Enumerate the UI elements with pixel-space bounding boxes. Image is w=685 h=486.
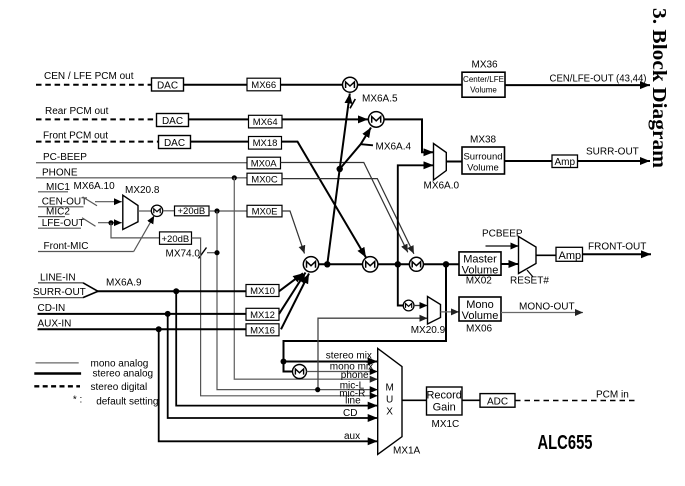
wire DAC to MX66 (184, 84, 248, 86)
wire mic2 tap to +20dB front (111, 223, 160, 238)
svg-text:Center/LFE: Center/LFE (463, 75, 504, 84)
svg-text:CEN / LFE PCM out: CEN / LFE PCM out (44, 71, 134, 82)
junction aux tap (156, 326, 162, 332)
mux MX20.8 trapezoid (123, 195, 138, 229)
gain box Record Gain (426, 387, 462, 415)
svg-text:MX0C: MX0C (251, 174, 278, 185)
svg-text:DAC: DAC (164, 138, 185, 149)
wire Surround Volume to Amp (505, 160, 553, 162)
mixer M (center/LFE) circle (343, 77, 358, 92)
wire mixer3 to Master Volume (423, 263, 459, 265)
wire MX16 diagonal to mixer1 (281, 274, 309, 330)
wire MIC1/CEN-OUT merge slant (83, 197, 97, 206)
mixer row: front mixer1 circle (303, 257, 318, 272)
volume box Center/LFE Volume (462, 72, 505, 97)
wire MX0C diagonal to mixer3 (282, 179, 414, 254)
wire LINE-IN merge slants (83, 283, 98, 298)
svg-text:AUX-IN: AUX-IN (38, 319, 72, 330)
svg-text:Amp: Amp (559, 250, 582, 262)
junction front mix tap B (395, 261, 401, 267)
register box MX66 (247, 78, 281, 91)
wire front mix tap B up to MX6A.0 mux (398, 165, 434, 264)
node LINE-IN label underlined (38, 272, 83, 283)
mixer row: front mixer3 circle (409, 257, 423, 271)
wire MIC mux to mic mixer (138, 210, 151, 212)
wire phone down to record MUX (234, 178, 377, 379)
wire MX6A.4 to MX6A.0 mux (384, 119, 434, 152)
svg-text:LFE-OUT: LFE-OUT (42, 218, 85, 229)
wire +20dB front down to record MUX (mic-R) (192, 238, 378, 396)
svg-text:MX6A.10: MX6A.10 (74, 181, 116, 192)
wire MX10 diagonal to mixer1 (279, 273, 303, 291)
svg-text:Amp: Amp (555, 157, 576, 168)
svg-text:SURR-OUT: SURR-OUT (586, 147, 639, 158)
svg-text:CD-IN: CD-IN (38, 303, 66, 314)
svg-text:PC-BEEP: PC-BEEP (43, 152, 87, 163)
DAC U3 (front) (159, 136, 191, 150)
svg-text:stereo mix: stereo mix (326, 351, 372, 362)
mux front (beep/master) trapezoid (519, 237, 537, 274)
svg-text:LINE-IN: LINE-IN (40, 272, 76, 283)
wire front mix branch to MX6A.4 (340, 128, 371, 170)
svg-text:CD: CD (343, 408, 357, 419)
register box MX0E (247, 205, 282, 217)
svg-text:MIC1: MIC1 (46, 182, 70, 193)
wire aux down to record MUX (159, 329, 378, 441)
svg-text:PHONE: PHONE (42, 167, 78, 178)
wire PC-BEEP to MX0A (36, 162, 247, 164)
svg-text:MX6A.5: MX6A.5 (362, 94, 398, 105)
wire mono mix to record MUX (307, 371, 378, 373)
wire CEN/LFE-OUT (505, 84, 650, 86)
label M U X inside (386, 383, 394, 418)
svg-text:MX0A: MX0A (251, 158, 278, 169)
label MX6A.4 with leader (361, 142, 412, 153)
wire line down to record MUX (176, 291, 378, 405)
svg-text:MX6A.9: MX6A.9 (106, 277, 142, 288)
wire front mix up to MX6A.5 with slash (327, 94, 355, 265)
svg-text:CEN/LFE-OUT (43,44): CEN/LFE-OUT (43,44) (550, 74, 647, 85)
wire stereo mix to record MUX (284, 361, 378, 363)
label RESET# with leader (510, 270, 549, 287)
wire cd down to record MUX (168, 314, 378, 418)
svg-text:ALC655: ALC655 (538, 432, 593, 454)
svg-text:MX38: MX38 (470, 135, 497, 146)
mixer M (rear) circle MX6A.4 (368, 112, 384, 128)
wire mixer2 to mixer3 (378, 263, 410, 265)
wire arrow into MIC mux input1 (95, 201, 122, 203)
svg-text:MX16: MX16 (250, 325, 275, 336)
svg-text:Gain: Gain (433, 402, 456, 414)
svg-text:U: U (386, 395, 393, 406)
junction phone tap (232, 175, 237, 180)
register box MX18 (249, 137, 282, 150)
junction cd tap (165, 311, 171, 317)
wire MX6A.0 to Surround Volume (446, 161, 462, 163)
junction MX74.0 dot (214, 250, 219, 255)
junction mic tap (214, 208, 219, 213)
DAC U2 (rear) (157, 114, 189, 128)
mixer M (mono out) circle (403, 300, 414, 311)
wire mic down to record MUX (mic-L) (217, 211, 378, 390)
wire PHONE to MX0C (36, 177, 247, 179)
wire mixer to Center/LFE Volume (358, 84, 463, 86)
svg-text:* :: * : (73, 395, 82, 406)
register box MX0A (247, 157, 281, 169)
svg-text:MONO-OUT: MONO-OUT (519, 302, 575, 313)
svg-text:MX02: MX02 (466, 276, 493, 287)
wire front mux to Amp (536, 254, 556, 256)
mixer row: front mixer2 circle (363, 257, 378, 272)
legend stereo analog (34, 369, 153, 380)
junction stereo mix tap (281, 359, 287, 365)
wire DAC to MX64 (189, 118, 249, 120)
svg-text:MX10: MX10 (250, 286, 275, 297)
wire arrow into MIC mux input2 (98, 222, 122, 224)
wire Record Gain to ADC (462, 399, 480, 401)
junction master out tap (443, 261, 449, 267)
svg-text:Rear PCM out: Rear PCM out (45, 106, 109, 117)
wire MX20.9 to Mono Volume (441, 311, 460, 313)
node CEN-OUT label underlined (38, 197, 87, 208)
wire FRONT-OUT (583, 253, 652, 255)
wire MX18 diagonal to front mixer2 (282, 142, 367, 258)
legend default setting (73, 395, 159, 408)
svg-text:M: M (386, 383, 394, 394)
wire +20dB to MX0E (209, 210, 247, 212)
register box MX12 (246, 308, 279, 321)
svg-text:MX6A.0: MX6A.0 (424, 181, 460, 192)
svg-text:DAC: DAC (162, 116, 183, 127)
svg-text:MX64: MX64 (253, 117, 278, 128)
gain box +20dB (mic) (175, 206, 210, 217)
svg-text:+20dB: +20dB (178, 206, 206, 217)
svg-text:+20dB: +20dB (162, 234, 190, 245)
svg-text:X: X (386, 407, 393, 418)
mixer M (mic) circle (151, 205, 162, 216)
svg-text:MX74.0: MX74.0 (166, 249, 201, 260)
wire MX0A diagonal to mixer3 (281, 163, 408, 253)
wire MONO-OUT (501, 312, 583, 314)
adc box ADC (480, 394, 515, 408)
wire dashed CEN/LFE PCM out to DAC (36, 84, 152, 86)
svg-text:MX66: MX66 (251, 80, 276, 91)
wire MX64 to mixer MX6A.4 (282, 118, 368, 120)
svg-text:PCBEEP: PCBEEP (482, 229, 523, 240)
svg-text:MX1A: MX1A (393, 446, 421, 457)
wire line/surr to MX10 (97, 290, 246, 292)
wire MIC2/LFE-OUT merge slant (82, 218, 96, 227)
svg-text:MX20.8: MX20.8 (125, 185, 160, 196)
svg-text:DAC: DAC (157, 81, 178, 92)
junction front mix tap A (324, 261, 330, 267)
register box MX16 (246, 324, 279, 337)
label MX74.0 with slash (166, 248, 215, 260)
svg-text:phone: phone (341, 370, 369, 381)
wire MX12 diagonal to mixer1 (279, 273, 306, 314)
svg-text:MX6A.4: MX6A.4 (376, 142, 412, 153)
legend mono analog (36, 359, 149, 370)
wire DAC to MX18 (191, 141, 249, 143)
register box MX0C (247, 173, 282, 185)
wire mic tap to MX20.9 mux (318, 318, 428, 389)
svg-text:MIC2: MIC2 (46, 206, 70, 217)
svg-text:Volume: Volume (470, 85, 497, 94)
svg-text:Record: Record (426, 390, 461, 402)
wire mixer1 to mixer2 (319, 263, 363, 265)
svg-text:MX0E: MX0E (252, 207, 278, 218)
DAC U1 (center/LFE) (152, 78, 184, 92)
mux MX20.9 trapezoid (428, 297, 441, 325)
svg-text:stereo digital: stereo digital (91, 382, 148, 393)
wire MX66 to mixer MX6A.5 (281, 84, 343, 86)
legend stereo digital (34, 382, 147, 393)
svg-text:ADC: ADC (487, 396, 508, 407)
svg-text:Front PCM out: Front PCM out (43, 131, 108, 142)
svg-text:line: line (345, 396, 361, 407)
node LFE-OUT label underlined (38, 218, 84, 229)
wire dashed Rear PCM out to DAC (36, 118, 157, 120)
svg-text:default setting: default setting (96, 397, 158, 408)
svg-text:Volume: Volume (467, 163, 499, 174)
wire mic mixer to +20dB (163, 210, 175, 212)
wire PCBEEP to front mux (486, 245, 519, 247)
wire front mix tap B down to mono mixer (398, 264, 403, 305)
svg-text:3. Block Diagram: 3. Block Diagram (648, 8, 670, 168)
wire mono mixer to MX20.9 mux (414, 305, 428, 307)
wire Front-MIC diagonal to mic mixer (134, 216, 155, 252)
junction mic2 tap (108, 220, 113, 225)
node SURR-OUT label underlined (33, 287, 86, 298)
svg-text:MX36: MX36 (472, 60, 499, 71)
register box MX10 (246, 285, 279, 298)
node MIC1 label underlined (38, 182, 70, 193)
junction mic-L tap (315, 387, 320, 392)
svg-text:Front-MIC: Front-MIC (44, 241, 89, 252)
volume box Master Volume (459, 252, 501, 276)
wire MX0E diagonal to mixer1 (282, 211, 305, 254)
gain box +20dB (front-mic) (160, 232, 192, 245)
wire SURR-OUT (578, 160, 651, 162)
svg-text:FRONT-OUT: FRONT-OUT (588, 242, 646, 253)
mux MX6A.0 trapezoid (434, 144, 447, 181)
svg-text:MX12: MX12 (250, 310, 275, 321)
svg-text:Volume: Volume (462, 310, 499, 322)
svg-text:aux: aux (344, 431, 360, 442)
svg-text:stereo analog: stereo analog (93, 369, 154, 380)
mixer M (mono mix) circle (293, 365, 307, 379)
svg-text:SURR-OUT: SURR-OUT (33, 287, 86, 298)
wire dashed Front PCM out to DAC (36, 141, 159, 143)
svg-text:Volume: Volume (462, 264, 499, 276)
node MIC2 label underlined (38, 206, 70, 217)
wire stereo tap to mono mixer (284, 362, 293, 372)
svg-text:MX06: MX06 (466, 324, 493, 335)
wire Master Volume to front mux (501, 263, 519, 265)
wire record MUX to Record Gain (402, 399, 427, 401)
svg-text:Surround: Surround (463, 152, 502, 163)
svg-text:PCM in: PCM in (596, 390, 629, 401)
node CD-IN label underlined (38, 303, 247, 314)
wire dashed PCM in (515, 400, 636, 402)
junction line tap (173, 288, 179, 294)
svg-text:MX1C: MX1C (432, 419, 460, 430)
register box MX64 (249, 115, 283, 128)
svg-text:MX20.9: MX20.9 (411, 325, 446, 336)
amp box (front) (556, 247, 583, 261)
volume box Surround Volume (462, 147, 505, 174)
node AUX-IN label underlined (38, 319, 247, 330)
junction front mix up tap (337, 166, 343, 172)
node Front-MIC label underlined (38, 241, 134, 252)
amp box (surround) (552, 155, 578, 168)
mux MX1A record trapezoid (378, 348, 402, 454)
svg-text:MX18: MX18 (253, 138, 278, 149)
wire master tap down to stereo/mono mix (284, 264, 447, 361)
volume box Mono Volume (459, 297, 501, 322)
svg-text:RESET#: RESET# (510, 276, 549, 287)
